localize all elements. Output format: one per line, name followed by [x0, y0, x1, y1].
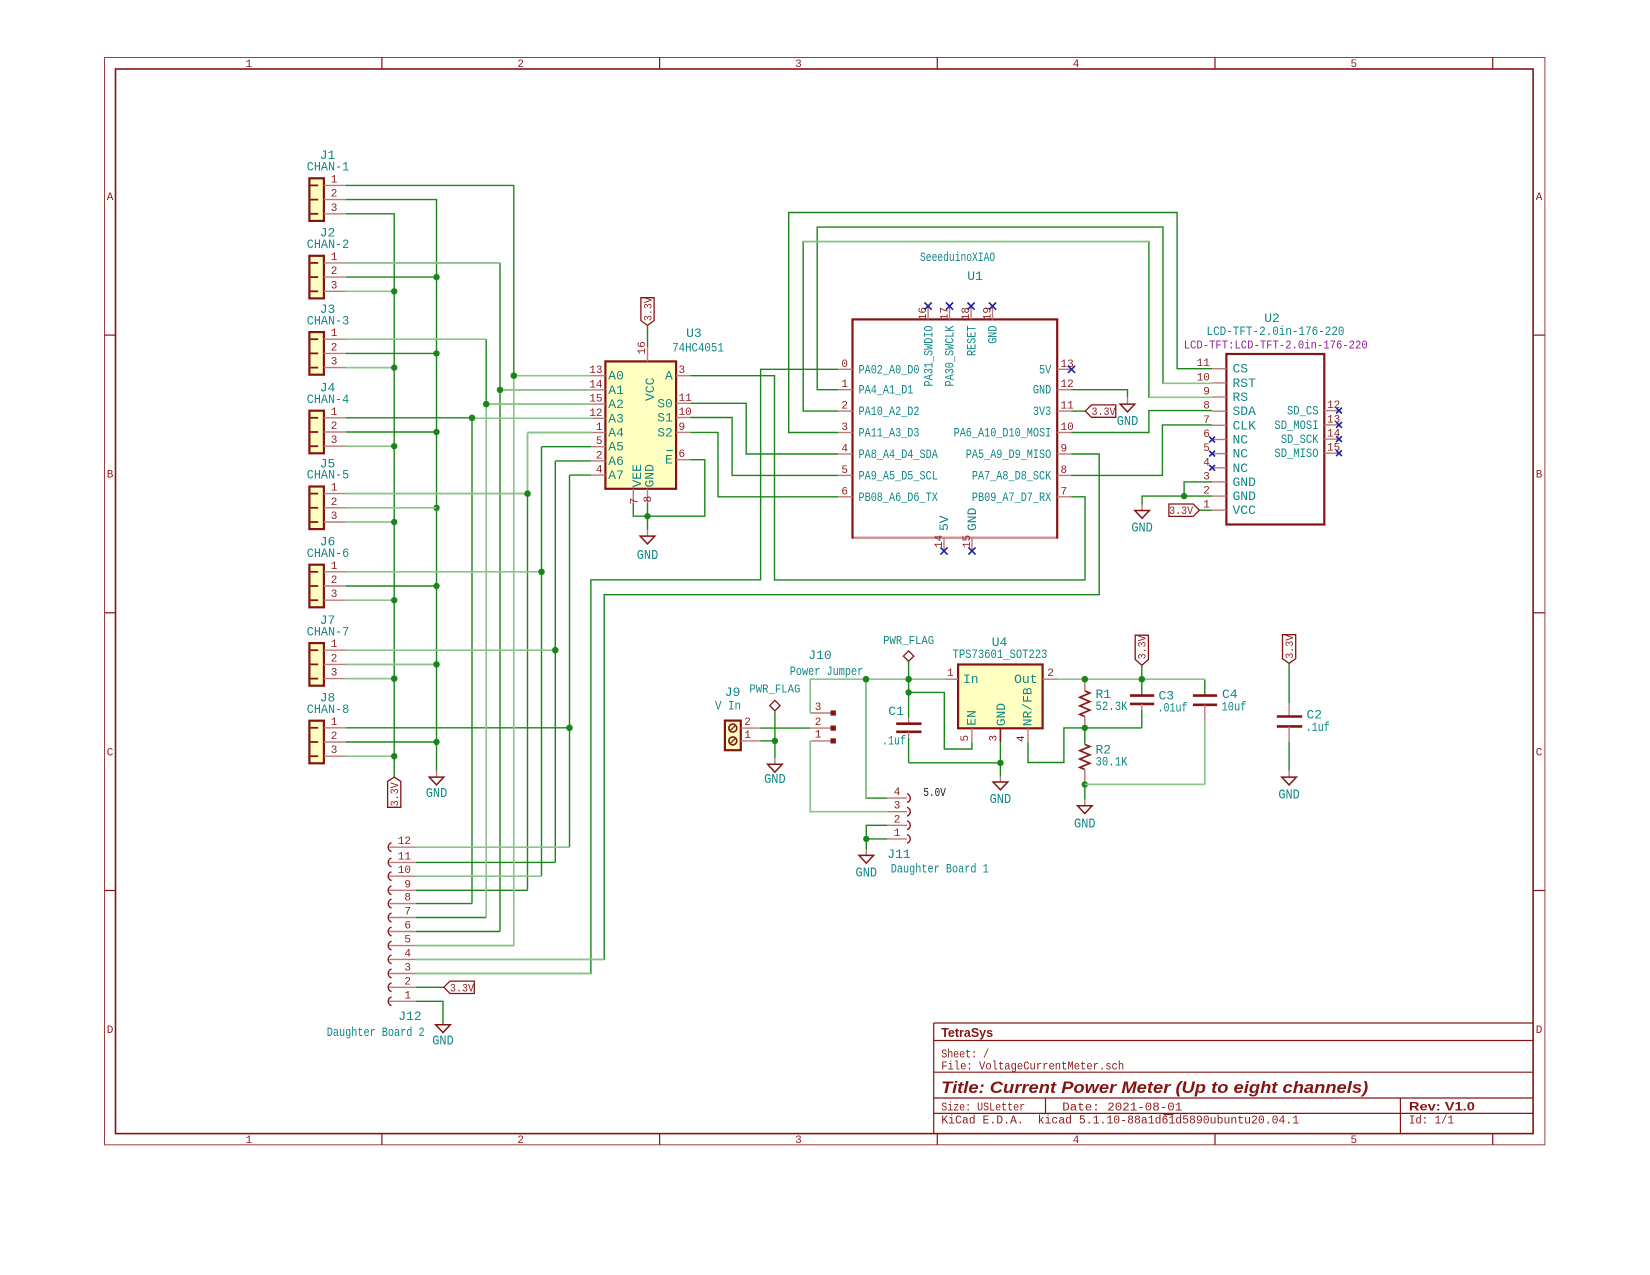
U2 pin 6 NC: [1212, 439, 1226, 441]
U2 pin 12 SD_CS: [1324, 410, 1339, 412]
svg-text:4: 4: [404, 948, 411, 960]
svg-text:1: 1: [331, 174, 338, 186]
U4 pin 2 Out: [1043, 678, 1058, 680]
svg-text:1: 1: [841, 379, 848, 391]
svg-text:PWR_FLAG: PWR_FLAG: [749, 684, 800, 697]
capacitor C4 10uf: [1204, 679, 1206, 695]
svg-text:SeeeduinoXIAO: SeeeduinoXIAO: [920, 250, 995, 265]
svg-text:2: 2: [331, 342, 338, 354]
svg-text:3: 3: [331, 511, 338, 523]
svg-text:CHAN-3: CHAN-3: [307, 313, 349, 328]
power 3.3V tag above C3: [1135, 635, 1148, 665]
svg-text:2: 2: [331, 497, 338, 509]
junction: [391, 753, 397, 759]
svg-text:2: 2: [517, 1135, 524, 1147]
svg-text:PA11_A3_D3: PA11_A3_D3: [859, 426, 920, 441]
U1 pin 0 PA02_A0_D0: [838, 368, 852, 370]
svg-text:.01uf: .01uf: [1158, 701, 1188, 716]
svg-text:3: 3: [331, 203, 338, 215]
wire R1/R2 junction to C3 bottom: [1085, 727, 1142, 729]
wire J10 pin3 up to In rail: [809, 679, 811, 713]
svg-text:3: 3: [841, 422, 848, 434]
resistor R2 30.1K: [1080, 744, 1090, 769]
U1 pin 16 PA31_SWDIO: [927, 306, 929, 319]
svg-text:3.3V: 3.3V: [450, 983, 474, 995]
svg-text:Out: Out: [1014, 672, 1037, 687]
wire: [647, 325, 649, 347]
svg-text:1: 1: [596, 422, 603, 434]
svg-text:NC: NC: [1233, 447, 1249, 462]
svg-text:GND: GND: [856, 867, 878, 882]
junction: [1082, 781, 1088, 787]
svg-text:18: 18: [961, 307, 973, 320]
svg-text:3: 3: [988, 735, 1000, 742]
svg-text:5V: 5V: [1039, 362, 1051, 377]
wire: [346, 352, 437, 354]
svg-text:GND: GND: [426, 787, 448, 802]
svg-text:GND: GND: [643, 464, 658, 488]
svg-text:4: 4: [1203, 457, 1210, 469]
U2 pin 14 SD_SCK: [1324, 438, 1339, 440]
svg-text:11: 11: [679, 393, 693, 405]
U4 pin 5 EN: [971, 728, 973, 742]
svg-text:A5: A5: [608, 440, 624, 455]
svg-text:13: 13: [589, 365, 602, 377]
svg-text:PA4_A1_D1: PA4_A1_D1: [859, 383, 914, 398]
svg-text:B: B: [107, 470, 114, 482]
svg-text:NR/FB: NR/FB: [1021, 687, 1036, 726]
svg-text:VCC: VCC: [643, 377, 658, 401]
svg-text:GND: GND: [1117, 415, 1139, 430]
power 3.3V tag above U3: [641, 298, 654, 326]
wire U4 GND down: [999, 742, 1001, 763]
svg-text:CLK: CLK: [1233, 418, 1257, 433]
svg-text:J12: J12: [398, 1009, 421, 1024]
no-connect: [940, 547, 947, 554]
svg-text:9: 9: [1061, 444, 1068, 456]
U1 pin 6 PB08_A6_D6_TX: [838, 496, 852, 498]
svg-text:GND: GND: [764, 773, 786, 788]
svg-text:14: 14: [589, 379, 603, 391]
J12 pin 4: [388, 955, 391, 964]
svg-text:CHAN-5: CHAN-5: [307, 468, 349, 483]
svg-text:5.0V: 5.0V: [923, 786, 946, 800]
svg-text:LCD-TFT:LCD-TFT-2.0in-176-220: LCD-TFT:LCD-TFT-2.0in-176-220: [1184, 339, 1368, 353]
power 3.3V tag (CHAN pin3 rail): [388, 777, 401, 807]
wire rail to J11 pin4 (5.0V): [866, 679, 887, 798]
wire J9 pin2 to J10 pin2: [760, 727, 810, 729]
no-connect: [968, 303, 975, 310]
junction: [538, 569, 544, 575]
svg-text:GND: GND: [432, 1035, 454, 1050]
junction: [433, 661, 439, 667]
svg-text:8: 8: [1061, 465, 1068, 477]
svg-text:A3: A3: [608, 411, 624, 426]
U1 pin 14 5V: [943, 538, 945, 551]
svg-text:6: 6: [841, 486, 848, 498]
svg-text:5: 5: [596, 436, 603, 448]
svg-text:7: 7: [1203, 415, 1210, 427]
svg-text:3.3V: 3.3V: [1092, 407, 1116, 419]
wire J9 pin1 to flag/gnd: [760, 740, 775, 742]
U3 pin 8 GND: [647, 489, 649, 503]
U3 pin 13 A0: [591, 375, 605, 377]
junction: [469, 415, 475, 421]
wire NR/FB to divider: [1028, 728, 1085, 763]
junction: [644, 513, 650, 519]
connector J2 CHAN-2: [309, 256, 324, 299]
IC U1 SeeeduinoXIAO body: [853, 319, 1058, 537]
display U2 LCD-TFT body: [1226, 354, 1324, 525]
svg-text:C: C: [107, 747, 114, 759]
svg-text:2: 2: [331, 189, 338, 201]
svg-text:D: D: [1536, 1025, 1543, 1037]
junction: [1181, 493, 1187, 499]
J9 pin 2: [741, 727, 760, 729]
junction: [391, 288, 397, 294]
U3 pin 14 A1: [591, 389, 605, 391]
junction: [863, 676, 869, 682]
junction: [905, 689, 911, 695]
svg-text:1: 1: [331, 252, 338, 264]
wire U1 D1 to U2 RST: [817, 227, 1212, 390]
resistor R1 52.3K: [1084, 679, 1086, 691]
U4 pin 3 GND: [999, 728, 1001, 742]
wire CHAN-7 signal net: [346, 649, 555, 651]
svg-text:2: 2: [331, 653, 338, 665]
svg-text:PA7_A8_D8_SCK: PA7_A8_D8_SCK: [972, 468, 1051, 483]
svg-text:2: 2: [596, 450, 603, 462]
junction: [433, 739, 439, 745]
wire C1 bottom to U4 gnd: [909, 762, 1001, 764]
svg-text:3: 3: [815, 702, 822, 714]
svg-text:0: 0: [841, 359, 848, 371]
svg-text:15: 15: [962, 535, 974, 548]
wire U1 D0 net to J12 pin3: [416, 369, 838, 973]
U3 pin 3 A: [676, 375, 690, 377]
U1 pin 10 PA6_A10_D10_MOSI: [1057, 432, 1071, 434]
svg-text:3: 3: [679, 365, 686, 377]
junction: [433, 583, 439, 589]
svg-text:SD_CS: SD_CS: [1287, 404, 1319, 419]
svg-text:CHAN-6: CHAN-6: [307, 546, 349, 561]
svg-text:A: A: [665, 369, 673, 384]
ground: [1141, 503, 1143, 505]
wire C4 bottom to R2 junction: [1085, 783, 1205, 785]
svg-text:52.3K: 52.3K: [1096, 699, 1128, 714]
wire U1 D2 to U2 RS: [803, 242, 1212, 412]
svg-text:17: 17: [939, 307, 951, 320]
svg-text:RESET: RESET: [964, 325, 979, 356]
junction: [997, 760, 1003, 766]
U2 pin 3 GND: [1212, 481, 1226, 483]
no-connect: [968, 547, 975, 554]
ground: [1084, 785, 1086, 800]
wire CHAN pin3 3.3V rail: [346, 214, 394, 777]
svg-text:B: B: [1536, 470, 1543, 482]
svg-text:8: 8: [404, 893, 411, 905]
svg-text:4: 4: [1016, 735, 1028, 742]
connector J4 CHAN-4: [309, 411, 324, 454]
svg-text:3: 3: [795, 59, 802, 71]
svg-text:1: 1: [331, 483, 338, 495]
wire S1 to U1 D5: [690, 418, 838, 476]
no-connect: [1209, 465, 1215, 471]
wire CHAN pin2 GND rail: [346, 200, 437, 771]
svg-text:3.3V: 3.3V: [390, 782, 402, 806]
wire: [346, 290, 394, 292]
wire CHAN-2 signal net: [346, 262, 500, 264]
svg-text:PA30_SWCLK: PA30_SWCLK: [943, 325, 958, 386]
svg-text:GND: GND: [1233, 475, 1257, 490]
wire: [346, 276, 437, 278]
junction: [497, 387, 503, 393]
junction: [552, 647, 558, 653]
U1 pin 12 GND: [1057, 389, 1071, 391]
svg-text:Date: 2021-08-01: Date: 2021-08-01: [1062, 1102, 1182, 1115]
svg-text:A7: A7: [608, 468, 624, 483]
J12 pin 3: [388, 969, 391, 978]
no-connect: [946, 303, 953, 310]
svg-text:GND: GND: [1033, 383, 1051, 398]
wire U1 3V3 pin11: [1072, 410, 1086, 412]
U1 pin 5 PA9_A5_D5_SCL: [838, 474, 852, 476]
svg-text:1: 1: [404, 990, 411, 1002]
svg-text:E: E: [665, 453, 673, 468]
svg-text:9: 9: [404, 879, 411, 891]
svg-text:1: 1: [331, 717, 338, 729]
svg-text:TPS73601_SOT223: TPS73601_SOT223: [953, 647, 1048, 662]
U1 pin 3 PA11_A3_D3: [838, 432, 852, 434]
svg-text:19: 19: [982, 307, 994, 320]
svg-text:A: A: [107, 192, 114, 204]
J12 pin 10: [388, 872, 391, 881]
svg-text:SD_MOSI: SD_MOSI: [1274, 418, 1318, 433]
title block: [934, 1022, 1533, 1024]
U1 pin 15 GND: [971, 538, 973, 551]
U1 pin 13 5V: [1057, 368, 1071, 370]
U1 pin 19 GND: [992, 306, 994, 319]
wire U1 MOSI to U2 SDA: [1072, 411, 1213, 433]
svg-text:2: 2: [744, 717, 751, 729]
connector J5 CHAN-5: [309, 487, 324, 530]
svg-text:File: VoltageCurrentMeter.sch: File: VoltageCurrentMeter.sch: [941, 1061, 1124, 1074]
U3 pin 7 VEE: [632, 489, 634, 503]
connector J6 CHAN-6: [309, 565, 324, 608]
U2 pin 1 VCC: [1212, 509, 1226, 511]
svg-text:CHAN-2: CHAN-2: [307, 237, 349, 252]
wire: [346, 755, 394, 757]
U1 pin 11 3V3: [1057, 410, 1071, 412]
no-connect: [1336, 450, 1342, 456]
wire S0 to U1 D4: [690, 403, 838, 454]
wire CHAN-8 signal net: [346, 727, 570, 729]
svg-text:PA5_A9_D9_MISO: PA5_A9_D9_MISO: [966, 447, 1052, 462]
junction: [905, 676, 911, 682]
svg-text:SD_MISO: SD_MISO: [1274, 446, 1318, 461]
svg-text:3.3V: 3.3V: [643, 297, 655, 321]
svg-text:16: 16: [918, 307, 930, 320]
wire CHAN-5 signal net: [346, 493, 528, 495]
J10 pin 1: [810, 740, 830, 742]
J12 pin 12: [388, 843, 391, 852]
svg-text:VCC: VCC: [1233, 503, 1257, 518]
wire J12 pin1 gnd: [416, 1001, 443, 1025]
wire: [346, 367, 394, 369]
connector J3 CHAN-3: [309, 332, 324, 375]
wire In rail: [810, 678, 945, 680]
svg-text:GND: GND: [1074, 818, 1096, 833]
wire: [346, 507, 437, 509]
J12 pin 5: [388, 941, 391, 950]
U1 pin 9 PA5_A9_D9_MISO: [1057, 453, 1071, 455]
svg-text:GND: GND: [1233, 489, 1257, 504]
wire CHAN-1 signal net: [346, 184, 514, 186]
no-connect U1 pin13: [1068, 366, 1075, 373]
U2 pin 8 SDA: [1212, 410, 1226, 412]
svg-text:4: 4: [1073, 59, 1080, 71]
junction: [1082, 676, 1088, 682]
no-connect: [1336, 436, 1342, 442]
wire: [346, 445, 394, 447]
svg-text:CHAN-8: CHAN-8: [307, 702, 349, 717]
svg-text:4: 4: [1073, 1135, 1080, 1147]
J12 pin 9: [388, 886, 391, 895]
junction: [1082, 725, 1088, 731]
svg-text:CS: CS: [1233, 362, 1249, 377]
svg-text:A4: A4: [608, 426, 624, 441]
ground: [436, 771, 438, 777]
wire: [346, 431, 437, 433]
junction: [391, 597, 397, 603]
svg-text:GND: GND: [1278, 788, 1300, 803]
wire EN net: [909, 692, 972, 749]
junction: [863, 836, 869, 842]
svg-text:.1uf: .1uf: [882, 734, 906, 749]
svg-text:GND: GND: [990, 793, 1012, 808]
svg-text:3: 3: [795, 1135, 802, 1147]
J12 pin 11: [388, 858, 391, 867]
svg-text:PA9_A5_D5_SCL: PA9_A5_D5_SCL: [859, 468, 938, 483]
svg-text:U3: U3: [686, 326, 702, 341]
svg-text:2: 2: [331, 421, 338, 433]
svg-text:5V: 5V: [937, 515, 952, 531]
power 3.3V tag (J12 pin2): [444, 981, 475, 993]
junction: [391, 364, 397, 370]
J11 pin 1: [887, 838, 907, 840]
svg-text:3: 3: [331, 589, 338, 601]
svg-text:1: 1: [894, 828, 901, 840]
no-connect: [1336, 422, 1342, 428]
svg-text:GND: GND: [986, 325, 1001, 343]
svg-text:2: 2: [1047, 668, 1054, 680]
svg-text:30.1K: 30.1K: [1096, 755, 1128, 770]
power 3.3V tag (U2 VCC): [1169, 504, 1200, 516]
svg-text:3: 3: [331, 357, 338, 369]
svg-text:Title: Current Power Meter (Up: Title: Current Power Meter (Up to eight …: [941, 1079, 1369, 1097]
U1 pin 8 PA7_A8_D8_SCK: [1057, 474, 1071, 476]
svg-text:5: 5: [404, 935, 411, 947]
svg-text:3: 3: [894, 801, 901, 813]
svg-text:PB08_A6_D6_TX: PB08_A6_D6_TX: [859, 490, 938, 505]
svg-text:SDA: SDA: [1233, 404, 1257, 419]
svg-text:GND: GND: [994, 703, 1009, 727]
svg-text:7: 7: [1061, 486, 1068, 498]
U4 pin 4 NR/FB: [1027, 728, 1029, 742]
U2 pin 11 CS: [1212, 368, 1226, 370]
svg-text:A0: A0: [608, 369, 624, 384]
junction: [524, 490, 530, 496]
svg-text:J10: J10: [808, 648, 831, 663]
svg-text:6: 6: [679, 449, 686, 461]
junction: [566, 725, 572, 731]
svg-text:1: 1: [744, 730, 751, 742]
svg-text:1: 1: [245, 59, 252, 71]
regulator U4 TPS73601_SOT223 body: [958, 665, 1043, 729]
junction: [391, 675, 397, 681]
U3 pin 5 A5: [591, 446, 605, 448]
svg-text:14: 14: [934, 534, 946, 548]
svg-text:2: 2: [331, 575, 338, 587]
svg-text:GND: GND: [637, 549, 659, 564]
svg-text:PA10_A2_D2: PA10_A2_D2: [859, 404, 920, 419]
U1 pin 17 PA30_SWCLK: [949, 306, 951, 319]
wire: [346, 741, 437, 743]
ground: [647, 516, 649, 530]
svg-text:1: 1: [815, 730, 822, 742]
svg-text:11: 11: [1197, 358, 1211, 370]
svg-text:7: 7: [629, 498, 641, 505]
svg-text:GND: GND: [1131, 522, 1153, 537]
wire U1 D3 to U2 CS: [789, 213, 1212, 433]
U2 pin 15 SD_MISO: [1324, 452, 1339, 454]
no-connect: [1336, 408, 1342, 414]
no-connect: [925, 303, 932, 310]
svg-text:Rev: V1.0: Rev: V1.0: [1409, 1100, 1475, 1114]
svg-text:5: 5: [1350, 59, 1357, 71]
svg-text:3: 3: [404, 963, 411, 975]
capacitor C3 .01uf: [1141, 679, 1143, 695]
svg-text:.1uf: .1uf: [1306, 720, 1330, 735]
U1 pin 18 RESET: [970, 306, 972, 319]
svg-text:PA8_A4_D4_SDA: PA8_A4_D4_SDA: [859, 447, 938, 462]
wire U1 GND pin12: [1072, 390, 1128, 398]
U3 pin 6 E: [676, 459, 690, 461]
svg-text:KiCad E.D.A. kicad 5.1.10-88a: KiCad E.D.A. kicad 5.1.10-88a1d61d5890ub…: [941, 1115, 1299, 1128]
wire CHAN-6 signal net: [346, 571, 542, 573]
svg-text:Daughter Board 1: Daughter Board 1: [891, 861, 989, 876]
J11 pin 2: [887, 824, 907, 826]
svg-text:A6: A6: [608, 454, 624, 469]
wire U2 GND pins: [1184, 482, 1212, 496]
svg-text:In: In: [963, 672, 979, 687]
svg-text:LCD-TFT-2.0in-176-220: LCD-TFT-2.0in-176-220: [1207, 324, 1345, 339]
svg-text:PA31_SWDIO: PA31_SWDIO: [921, 325, 936, 386]
svg-text:3: 3: [331, 668, 338, 680]
capacitor C2 .1uf: [1283, 635, 1296, 664]
svg-text:4: 4: [841, 444, 848, 456]
svg-text:Id: 1/1: Id: 1/1: [1409, 1115, 1454, 1128]
svg-text:C1: C1: [888, 704, 904, 719]
wire: [346, 521, 394, 523]
svg-text:V In: V In: [715, 699, 741, 714]
wire S2 to U1 D6: [690, 432, 838, 496]
svg-text:3.3V: 3.3V: [1285, 634, 1297, 658]
junction: [483, 401, 489, 407]
ground: [442, 1024, 444, 1026]
svg-text:10: 10: [679, 407, 692, 419]
J12 pin 7: [388, 913, 391, 922]
